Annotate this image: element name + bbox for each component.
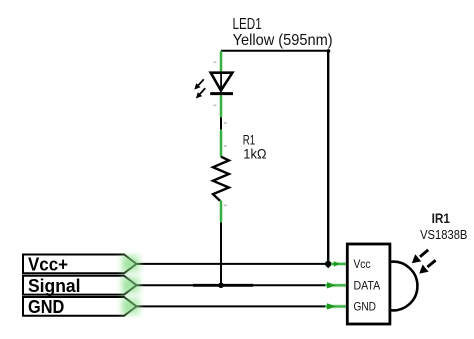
IR receiver IR1 Vcc pin	[331, 261, 347, 266]
wire: resistor bottom to Signal net	[220, 223, 222, 286]
resistor R1 top pin	[219, 131, 223, 156]
wire: LED1 anode top horizontal	[221, 50, 328, 52]
svg-text:GND: GND	[28, 296, 64, 317]
svg-text:IR1: IR1	[432, 211, 451, 226]
junction: Vcc diamond bendpoint	[324, 260, 332, 268]
LED LED1 bottom pin	[219, 96, 223, 117]
pin mark LED1 cathode	[214, 105, 217, 107]
svg-text:Yellow (595nm): Yellow (595nm)	[233, 32, 333, 49]
wire: Vcc+ horizontal	[137, 263, 328, 265]
pin mark R1 label side	[224, 145, 227, 147]
junction: top-right corner nub	[327, 49, 331, 53]
resistor R1 zigzag	[213, 157, 229, 201]
svg-text:Vcc: Vcc	[354, 257, 371, 271]
pin mark LED1 anode	[214, 62, 217, 64]
wire: GND horizontal	[137, 305, 327, 307]
LED LED1 emission arrow 2	[196, 88, 205, 98]
junction: resistor to Signal wire	[218, 283, 224, 289]
wire: right vertical drop to Vcc net	[327, 50, 329, 264]
svg-text:DATA: DATA	[354, 279, 381, 293]
wire: LED cathode to resistor	[220, 118, 222, 130]
svg-text:LED1: LED1	[233, 16, 262, 33]
IR receiver IR1 GND pin	[325, 303, 347, 309]
LED LED1 emission arrow 1	[194, 79, 204, 89]
wire: Signal overlap segment	[193, 284, 253, 287]
svg-text:VS1838B: VS1838B	[420, 227, 467, 242]
net label GND pennant	[23, 296, 140, 317]
svg-text:Signal: Signal	[28, 275, 81, 296]
net label Vcc+ pennant	[23, 254, 140, 275]
svg-text:Vcc+: Vcc+	[28, 254, 68, 275]
IR receiver IR1 DATA pin	[325, 282, 347, 288]
wire: Signal horizontal	[137, 284, 327, 286]
IR1 incoming light arrow 1	[412, 250, 428, 263]
resistor R1 bottom pin	[219, 202, 223, 222]
net label Signal pennant	[23, 275, 140, 296]
IR1 incoming light arrow 2	[419, 260, 435, 273]
svg-text:1kΩ: 1kΩ	[243, 146, 266, 162]
pin mark R1 bottom	[224, 205, 227, 207]
LED LED1 symbol	[210, 73, 233, 94]
IR receiver IR1 body	[347, 244, 390, 324]
pin mark R1 top	[224, 122, 227, 124]
LED LED1 top pin	[219, 52, 223, 72]
IR receiver IR1 dome	[390, 262, 418, 311]
svg-text:GND: GND	[354, 300, 377, 314]
